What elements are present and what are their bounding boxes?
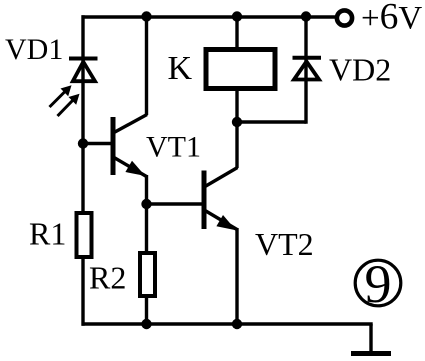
svg-text:R1: R1: [29, 216, 66, 252]
wire VD2 column: [304, 17, 307, 124]
wire R2 bottom: [145, 296, 148, 324]
ground: [351, 324, 391, 354]
node base VT2: [141, 199, 151, 209]
resistor R1: [77, 213, 92, 257]
svg-text:VT1: VT1: [146, 131, 201, 164]
wire left column: [81, 15, 84, 325]
transistor VT1: [83, 115, 147, 177]
node top-2: [232, 11, 242, 21]
diode VD2: [293, 58, 322, 80]
svg-text:R2: R2: [89, 260, 126, 296]
svg-text:VD2: VD2: [329, 52, 391, 88]
wire bottom rail: [82, 322, 373, 325]
terminal +6V: [337, 0, 422, 38]
node base VT1: [78, 138, 88, 148]
wire collector VT2 column: [235, 122, 238, 168]
wire collector VT1 column: [145, 17, 148, 115]
node bottom-2: [232, 319, 242, 329]
svg-text:+6V: +6V: [361, 0, 422, 38]
svg-text:K: K: [168, 50, 193, 87]
wire emitter VT1 to node: [145, 175, 148, 252]
wire top rail: [82, 15, 337, 18]
wire relay bottom: [235, 89, 238, 122]
svg-text:VT2: VT2: [255, 226, 314, 262]
photodiode VD1: [50, 59, 98, 117]
node top-3: [301, 11, 311, 21]
node number 9 badge: [355, 254, 401, 314]
node top-1: [141, 11, 151, 21]
wire relay top: [235, 17, 238, 48]
wire connector to VD2: [237, 120, 306, 123]
node relay bottom: [232, 117, 242, 127]
svg-text:VD1: VD1: [5, 33, 63, 66]
svg-text:9: 9: [365, 254, 392, 314]
resistor R2: [140, 253, 155, 296]
wire emitter VT2 column: [235, 228, 238, 324]
transistor VT2: [147, 168, 238, 231]
relay K: [206, 50, 275, 89]
node bottom-1: [141, 319, 151, 329]
